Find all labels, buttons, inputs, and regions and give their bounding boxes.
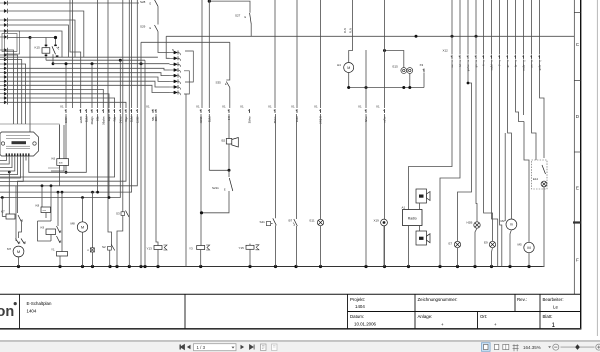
view mode icon 2 bbox=[494, 344, 498, 349]
module outer housing bbox=[0, 124, 59, 168]
radio bus wire bbox=[408, 226, 410, 267]
E15 wires bbox=[385, 51, 404, 68]
svg-text:M7: M7 bbox=[7, 247, 11, 251]
wire K15 feed bbox=[30, 37, 56, 39]
svg-text:56a/ws: 56a/ws bbox=[101, 116, 105, 125]
svg-text:E: E bbox=[576, 186, 579, 191]
X1 pin wire labels (rotated) bbox=[64, 116, 387, 125]
svg-text:sw: sw bbox=[451, 64, 454, 67]
other wire drops from X1 row bbox=[156, 114, 385, 267]
svg-text:H4: H4 bbox=[337, 63, 341, 67]
cluster wires joining staircase bbox=[65, 114, 111, 199]
risers middle top bbox=[274, 0, 276, 108]
svg-text:Ort:: Ort: bbox=[480, 314, 487, 319]
wire risers x202 x209 bbox=[201, 0, 203, 108]
svg-text:Zeichnungsnummer:: Zeichnungsnummer: bbox=[418, 297, 458, 302]
svg-text:Y15: Y15 bbox=[239, 246, 245, 250]
svg-text:F: F bbox=[576, 258, 579, 263]
node at K15 feed bbox=[29, 36, 32, 39]
svg-text:49a/gn: 49a/gn bbox=[90, 116, 94, 124]
speaker H5 (bottom) bbox=[416, 231, 427, 245]
control module A2 bbox=[0, 132, 39, 156]
svg-text:Y3: Y3 bbox=[189, 247, 193, 251]
svg-text:Anlage:: Anlage: bbox=[418, 314, 433, 319]
svg-text:X1: X1 bbox=[358, 105, 362, 109]
svg-text:S41: S41 bbox=[260, 220, 266, 224]
svg-text:Y1: Y1 bbox=[51, 248, 55, 252]
svg-text:m: m bbox=[510, 223, 513, 227]
rail y63.7 from K15 to N3 bbox=[53, 63, 170, 65]
svg-text:X1: X1 bbox=[314, 105, 318, 109]
svg-text:sw/58: sw/58 bbox=[79, 116, 83, 123]
top node bbox=[208, 0, 211, 3]
rail corner to N2 bbox=[166, 36, 169, 58]
frame section ticks bbox=[573, 13, 581, 223]
svg-text:X3: X3 bbox=[420, 63, 424, 67]
riser x366 bbox=[365, 50, 367, 108]
svg-text:X1: X1 bbox=[291, 105, 295, 109]
svg-text:E-Schaltplan: E-Schaltplan bbox=[27, 301, 52, 306]
component feed taps bbox=[1, 171, 94, 252]
lamp E14 in dashed box bbox=[532, 160, 548, 189]
svg-text:164.35%: 164.35% bbox=[523, 345, 541, 350]
svg-text:1: 1 bbox=[552, 322, 556, 329]
svg-text:X19: X19 bbox=[374, 219, 380, 223]
rail y42 to S35 bbox=[141, 41, 230, 43]
svg-text:X1: X1 bbox=[268, 105, 272, 109]
svg-text:M8: M8 bbox=[71, 222, 75, 226]
svg-text:X1: X1 bbox=[60, 105, 64, 109]
svg-text:E7: E7 bbox=[449, 242, 453, 246]
svg-text:Blatt:: Blatt: bbox=[543, 314, 553, 319]
staircase wires from X12 bbox=[409, 60, 545, 267]
svg-text:S211: S211 bbox=[212, 186, 219, 190]
svg-text:1404: 1404 bbox=[27, 308, 37, 313]
svg-text:X1: X1 bbox=[240, 105, 244, 109]
svg-text:E9: E9 bbox=[484, 241, 488, 245]
E14 bus wire bbox=[543, 187, 545, 267]
speaker H3 (top) bbox=[416, 189, 427, 203]
svg-text:M2: M2 bbox=[501, 219, 505, 223]
svg-text:1 / 3: 1 / 3 bbox=[197, 345, 206, 350]
connector N housing brackets bbox=[185, 51, 193, 82]
wire below horn bbox=[228, 144, 230, 170]
svg-text:PL/N: PL/N bbox=[345, 28, 347, 33]
svg-text:+: + bbox=[494, 322, 497, 327]
pin feed risers 70/72.5/97.6 bbox=[70, 0, 81, 108]
ground bus bbox=[0, 266, 543, 268]
svg-text:S3: S3 bbox=[116, 212, 120, 216]
nav last button bbox=[250, 345, 255, 350]
zoom dropdown arrow bbox=[548, 346, 551, 348]
svg-text:E15: E15 bbox=[393, 65, 399, 69]
svg-text:B2: B2 bbox=[222, 139, 226, 143]
svg-text:31/bl: 31/bl bbox=[295, 116, 299, 122]
svg-text:10.01.2006: 10.01.2006 bbox=[354, 321, 377, 326]
svg-text:Projekt:: Projekt: bbox=[350, 297, 365, 302]
view mode icon 3 bbox=[503, 344, 509, 349]
riser x384.5 top bbox=[384, 0, 386, 108]
connector housing boxes bbox=[2, 34, 17, 52]
svg-text:X1: X1 bbox=[196, 105, 200, 109]
wire riser x524 bbox=[524, 122, 529, 243]
svg-text:+: + bbox=[441, 322, 444, 327]
status bar background bbox=[0, 340, 600, 341]
wire riser x544 bbox=[543, 130, 545, 158]
svg-text:Le: Le bbox=[553, 305, 558, 310]
svg-text:M: M bbox=[17, 249, 20, 254]
svg-text:E14: E14 bbox=[533, 177, 538, 181]
H4 wires bbox=[349, 0, 353, 63]
wire fan from left connector bbox=[8, 3, 170, 124]
svg-text:X1: X1 bbox=[222, 105, 226, 109]
nav next button bbox=[241, 345, 245, 350]
svg-text:S29: S29 bbox=[140, 25, 146, 29]
svg-text:Datum:: Datum: bbox=[350, 314, 364, 319]
svg-text:K15: K15 bbox=[35, 46, 41, 50]
svg-text:B7: B7 bbox=[289, 219, 293, 223]
svg-text:E11: E11 bbox=[310, 219, 315, 223]
speaker H3 wire bbox=[419, 203, 421, 210]
relay K6 wires bbox=[59, 125, 61, 159]
svg-text:A1: A1 bbox=[402, 206, 406, 210]
contact pair above M7 bbox=[16, 239, 20, 245]
svg-text:K8: K8 bbox=[36, 204, 40, 208]
svg-text:M: M bbox=[347, 66, 350, 70]
module A2 bottom pins bbox=[6, 153, 30, 156]
frame right border thin line bbox=[573, 0, 575, 294]
svg-text:on: on bbox=[0, 304, 14, 320]
svg-text:S27: S27 bbox=[235, 14, 241, 18]
view mode icon selected bbox=[482, 343, 491, 352]
long horizontal rail y36 bbox=[166, 35, 574, 37]
connector row X1 labels bbox=[60, 105, 380, 109]
contacts right of K9 bbox=[57, 226, 61, 233]
view mode icon 4 bbox=[513, 344, 519, 351]
nav history icons bbox=[261, 344, 267, 351]
risers x108-136 top bbox=[108, 0, 112, 246]
svg-text:X1: X1 bbox=[376, 105, 380, 109]
svg-text:PL/N: PL/N bbox=[351, 28, 353, 33]
frame right border thick line bbox=[580, 0, 582, 329]
wire rail y87.5 bbox=[347, 87, 424, 89]
svg-text:K9: K9 bbox=[41, 226, 45, 230]
wire staircase to X1 pins bbox=[0, 114, 137, 213]
rail y60 from K15 bbox=[46, 59, 145, 61]
svg-text:Bearbeiter:: Bearbeiter: bbox=[543, 297, 564, 302]
svg-text:M: M bbox=[527, 245, 530, 250]
X12 pin numbers and labels bbox=[451, 61, 542, 72]
connector X5 pin arrows (left edge) bbox=[0, 1, 8, 105]
speaker H5 wire bbox=[419, 226, 421, 232]
svg-text:30/sw: 30/sw bbox=[248, 116, 252, 123]
svg-text:M: M bbox=[81, 224, 84, 229]
nav first page button bbox=[180, 345, 185, 350]
zoom slider bbox=[561, 346, 595, 348]
svg-text:1404: 1404 bbox=[355, 304, 365, 309]
svg-text:Y13: Y13 bbox=[147, 247, 153, 251]
svg-text:Radio: Radio bbox=[408, 217, 417, 221]
page right edge bbox=[596, 0, 598, 336]
svg-text:S2: S2 bbox=[102, 245, 106, 249]
module A2 pin wires bbox=[0, 156, 23, 182]
pin 66 feed from rail bbox=[65, 64, 67, 108]
zoom in button (clipped) bbox=[596, 344, 600, 350]
svg-text:K6: K6 bbox=[52, 157, 56, 161]
wire module pin to X1 bbox=[29, 114, 87, 172]
svg-text:X1: X1 bbox=[146, 105, 150, 109]
svg-text:M5: M5 bbox=[518, 243, 522, 247]
wire rail y57 bbox=[0, 56, 158, 58]
nav prev button bbox=[187, 345, 191, 350]
nav page combo bbox=[194, 344, 237, 351]
zoom out button bbox=[553, 344, 559, 350]
title block outer lines bbox=[0, 294, 581, 329]
X12 risers above bbox=[452, 0, 540, 55]
wire riser x186 bbox=[185, 94, 187, 267]
svg-text:S28: S28 bbox=[140, 0, 146, 4]
connector row X1 pins bbox=[65, 109, 385, 113]
svg-text:Rev.:: Rev.: bbox=[517, 297, 527, 302]
title block vertical dividers bbox=[20, 294, 581, 329]
svg-text:X12: X12 bbox=[443, 49, 449, 53]
svg-text:H2B: H2B bbox=[467, 221, 473, 225]
bus junction dots bbox=[17, 265, 531, 268]
svg-text:K7: K7 bbox=[1, 210, 5, 214]
bus right end riser bbox=[543, 266, 545, 268]
svg-text:S35: S35 bbox=[216, 81, 222, 85]
